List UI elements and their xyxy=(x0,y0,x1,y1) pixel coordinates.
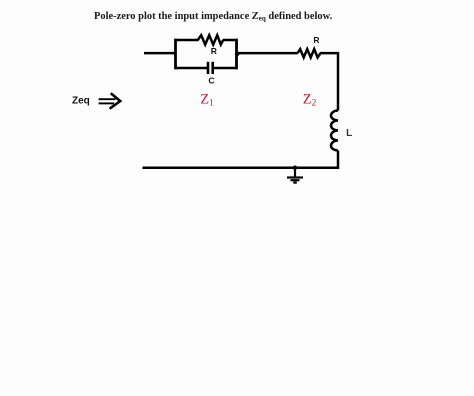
label L (inductor) xyxy=(346,128,352,139)
wire: box to series resistor xyxy=(237,52,298,55)
label R (series resistor) xyxy=(313,35,319,45)
svg-text:L: L xyxy=(346,128,352,139)
svg-text:Z2: Z2 xyxy=(303,92,317,109)
title text xyxy=(94,11,332,23)
label C (capacitor) xyxy=(208,75,214,85)
capacitor C (in parallel box, bottom branch) xyxy=(208,62,213,74)
svg-text:R: R xyxy=(313,35,319,45)
svg-text:Z1: Z1 xyxy=(200,92,214,109)
label Z1 (red, parallel block impedance) xyxy=(200,92,214,109)
resistor R (in parallel box, top branch) xyxy=(198,35,223,44)
resistor R (series, Z2) xyxy=(298,49,321,57)
wire: box right edge xyxy=(235,39,238,70)
wire: box left edge xyxy=(174,39,177,70)
label R (parallel resistor) xyxy=(211,46,217,56)
wire: left input terminal to parallel box xyxy=(144,52,176,55)
wire: box bottom edge right segment xyxy=(213,67,238,70)
node: junction dot on box right edge xyxy=(235,51,240,56)
node: junction dot at ground tap xyxy=(293,166,297,170)
svg-text:C: C xyxy=(208,75,214,85)
wire: inductor to bottom-right corner and along bottom xyxy=(143,151,339,168)
wire: box bottom edge left segment xyxy=(175,67,209,70)
label Zeq (input impedance) xyxy=(72,96,90,107)
wire: box top edge left segment xyxy=(175,39,199,42)
arrow: Zeq double arrow xyxy=(99,93,121,109)
wire: series resistor to top-right corner and down xyxy=(320,53,338,110)
svg-text:R: R xyxy=(211,46,217,56)
ground xyxy=(287,168,303,183)
inductor L xyxy=(331,111,338,151)
label Z2 (red, series block impedance) xyxy=(303,92,317,109)
wire: box top edge right segment xyxy=(223,39,238,42)
svg-text:Zeq: Zeq xyxy=(72,96,90,107)
